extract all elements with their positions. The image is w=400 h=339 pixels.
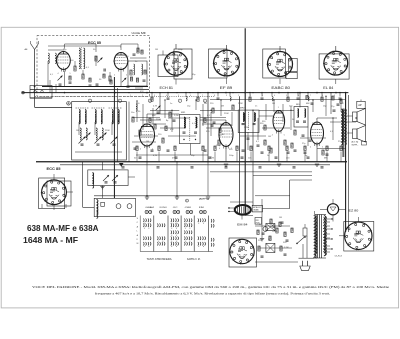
resistor R23 bbox=[291, 143, 293, 148]
resistor RH3 bbox=[197, 97, 199, 101]
pin circle 90 bbox=[88, 99, 91, 102]
wire v266 bbox=[265, 104, 267, 120]
svg-text:5: 5 bbox=[126, 75, 127, 77]
svg-text:EABC 80: EABC 80 bbox=[271, 86, 290, 90]
resistor RM251 bbox=[250, 146, 252, 151]
wire h128-160 bbox=[160, 127, 186, 129]
wire vertical HT double B bbox=[347, 95, 349, 232]
pickup circle bbox=[263, 227, 268, 232]
capacitor C14 bbox=[302, 134, 305, 136]
svg-text:TASTI ATMOSFERA: TASTI ATMOSFERA bbox=[147, 258, 172, 261]
AM box winding boost bbox=[79, 110, 80, 124]
capacitor CD305 bbox=[304, 151, 307, 153]
coil LH2 bbox=[186, 97, 187, 101]
node arrow bbox=[119, 163, 124, 167]
heater capacitor C19 bbox=[139, 156, 142, 158]
FM tuner dashed box (ECC85 section) bbox=[37, 36, 150, 97]
svg-text:8: 8 bbox=[322, 95, 323, 97]
lead stub socket EF89 bbox=[226, 45, 228, 50]
T4 caps bbox=[296, 120, 299, 122]
wire h128-206 bbox=[206, 127, 232, 129]
svg-text:1: 1 bbox=[238, 95, 239, 97]
pentode V3 EF89 bbox=[219, 123, 233, 147]
wire heater bus B bbox=[60, 164, 330, 166]
resistor RF3 bbox=[69, 76, 71, 80]
resistor R31 bbox=[276, 228, 278, 233]
svg-text:1648 MA - MF: 1648 MA - MF bbox=[23, 236, 78, 245]
tube socket ECC85 (base diagram) bbox=[39, 178, 65, 209]
stub wire x262 bbox=[261, 93, 263, 97]
wire vert x289 bbox=[289, 180, 291, 209]
capacitor C9 bbox=[167, 149, 170, 151]
capacitor C27 bbox=[284, 253, 287, 255]
wire vertical x160 bbox=[159, 93, 161, 114]
wire h117.5-132 bbox=[132, 117, 160, 119]
T2 secondary coil bbox=[196, 117, 197, 127]
svg-text:4: 4 bbox=[274, 95, 275, 97]
wire vertical main mid bbox=[244, 28, 246, 215]
IF transformer T3 box bbox=[238, 110, 259, 132]
capacitor C13 bbox=[287, 151, 290, 153]
wire vertical x331 bbox=[330, 93, 332, 114]
AM box lower windings bbox=[80, 128, 81, 140]
small box below bbox=[255, 218, 262, 225]
cap CHT294 bbox=[293, 166, 296, 168]
wire ground bus bbox=[210, 171, 312, 173]
IF transformer T2 box bbox=[179, 115, 200, 144]
capacitor CF2 bbox=[59, 83, 62, 85]
capacitor C4 bbox=[127, 85, 130, 87]
dial drive box 1 bbox=[88, 170, 128, 186]
resistor RX4 bbox=[219, 128, 221, 133]
FM coil core bbox=[80, 47, 82, 70]
FM box extra wiring bbox=[48, 45, 121, 47]
heater capacitor C22 bbox=[241, 156, 244, 158]
tube socket EL84 (base diagram) bbox=[319, 54, 349, 79]
resistor R18 bbox=[232, 105, 234, 110]
stub wire x308 bbox=[307, 93, 309, 97]
resistor R7 bbox=[136, 78, 138, 82]
extra dots pass2 bbox=[136, 100, 137, 101]
resistor R13 bbox=[154, 124, 156, 129]
wire AM box inner bbox=[78, 122, 80, 135]
svg-text:4: 4 bbox=[140, 149, 141, 151]
svg-text:FM: FM bbox=[199, 207, 204, 209]
svg-text:1M: 1M bbox=[221, 106, 224, 108]
wire EM84 right link bbox=[263, 208, 290, 210]
AM coil L5 bbox=[79, 110, 80, 123]
stub wire x218 bbox=[217, 93, 219, 97]
stub wire x230 bbox=[229, 93, 231, 97]
power transformer T6 core bbox=[317, 215, 319, 259]
svg-text:OC: OC bbox=[173, 207, 178, 209]
svg-text:ALT. 3Ω: ALT. 3Ω bbox=[352, 141, 359, 144]
capacitor C11 bbox=[204, 149, 207, 151]
resistor R20 bbox=[264, 140, 266, 145]
node bus junctions bbox=[64, 92, 66, 94]
wire v211 bbox=[210, 112, 212, 136]
resistor R11 bbox=[132, 117, 134, 122]
motor circle 1 bbox=[116, 204, 121, 209]
wire vertical x253 bbox=[252, 110, 254, 206]
wire br2 bbox=[258, 247, 292, 249]
svg-text:4: 4 bbox=[166, 95, 167, 97]
svg-text:SUPPL.: SUPPL. bbox=[352, 145, 359, 147]
svg-text:4: 4 bbox=[310, 147, 311, 149]
terminal A1 bbox=[34, 90, 36, 92]
capacitor CH13 bbox=[339, 97, 342, 99]
wire FM grid bbox=[48, 49, 65, 51]
AM coil L6 bbox=[85, 110, 86, 123]
wire bottom bus bbox=[94, 195, 230, 197]
svg-text:RIV.: RIV. bbox=[296, 104, 300, 106]
svg-text:6: 6 bbox=[190, 95, 191, 97]
resistor R34 bbox=[280, 246, 282, 251]
core line L9 bbox=[109, 107, 122, 109]
stub wire x186 bbox=[185, 93, 187, 97]
svg-text:1M: 1M bbox=[272, 103, 275, 105]
capacitor CD258 bbox=[257, 144, 260, 146]
osc trimmer C bbox=[122, 78, 127, 83]
trimmer T6 bbox=[103, 175, 109, 181]
svg-text:4: 4 bbox=[89, 101, 90, 103]
svg-text:AP: AP bbox=[358, 103, 362, 107]
wire v232 bbox=[231, 112, 233, 126]
tube socket EM84 (base diagram) bbox=[229, 238, 257, 267]
capacitor C5 bbox=[143, 79, 146, 81]
svg-text:Unità MF: Unità MF bbox=[132, 31, 147, 35]
capacitor CH4 bbox=[217, 97, 220, 99]
lead stub socket EABC80 bbox=[279, 46, 281, 52]
wire h136-134 bbox=[134, 135, 158, 137]
wire EM84 drop bbox=[241, 215, 243, 220]
capacitor CX1 bbox=[157, 111, 160, 113]
svg-text:EM 84: EM 84 bbox=[237, 223, 248, 227]
capacitor C2 bbox=[89, 84, 92, 86]
ground at 208 bbox=[206, 196, 210, 198]
wire h136-240 bbox=[240, 135, 266, 137]
AM box arrows bbox=[86, 133, 91, 138]
wire v291 bbox=[290, 106, 292, 130]
wire v137 bbox=[136, 101, 138, 122]
magic eye V6 EM84 bbox=[235, 205, 251, 215]
capacitor CB3 bbox=[286, 239, 289, 241]
T4 coil A bbox=[298, 109, 299, 117]
tuning cap CV2 bbox=[95, 137, 102, 144]
heater capacitor C21 bbox=[209, 156, 212, 158]
wire terminal bottom bbox=[30, 97, 52, 99]
stub wire x340 bbox=[339, 93, 341, 97]
motor winding bbox=[97, 200, 99, 215]
svg-text:2,2M: 2,2M bbox=[244, 127, 249, 129]
wire vertical HT double A bbox=[345, 93, 347, 232]
MF sub-box bbox=[128, 61, 147, 86]
socket EZ80 stubs bbox=[357, 217, 359, 222]
left socket leads bbox=[53, 205, 55, 210]
wire vertical x208 bbox=[207, 93, 209, 162]
capacitor CH1 bbox=[167, 97, 170, 99]
wire AM box bottom bus bbox=[75, 151, 122, 153]
wire V1b cathode drop bbox=[120, 72, 122, 87]
wire V2 cathode bbox=[146, 147, 148, 162]
wire v221 bbox=[220, 100, 222, 116]
svg-text:OM: OM bbox=[185, 207, 191, 209]
wire EZ80 left bbox=[320, 208, 327, 210]
svg-text:8: 8 bbox=[214, 95, 215, 97]
svg-text:220K: 220K bbox=[105, 130, 110, 132]
svg-text:638 MA-MF e 638A: 638 MA-MF e 638A bbox=[27, 224, 99, 233]
resistor RMF bbox=[141, 50, 143, 54]
ground at 147 bbox=[145, 196, 149, 198]
svg-text:4,7K: 4,7K bbox=[210, 157, 215, 159]
mains switch S1 bbox=[297, 237, 305, 244]
capacitor CB1 bbox=[262, 232, 265, 234]
resistor R8 bbox=[130, 77, 132, 81]
fuse F1 bbox=[303, 228, 307, 236]
wire br1 bbox=[255, 225, 290, 227]
loudspeaker 2 bbox=[353, 129, 358, 139]
cap CHT192 bbox=[191, 166, 194, 168]
loudspeaker 1 bbox=[353, 112, 358, 122]
wire v190.5 bbox=[190, 144, 192, 156]
resistor R15 bbox=[169, 112, 171, 117]
wire v341 bbox=[340, 103, 342, 112]
wire matrix to EZ area bbox=[230, 201, 253, 203]
svg-text:1: 1 bbox=[146, 121, 147, 123]
resistor R25 bbox=[306, 96, 308, 100]
wire v196 bbox=[195, 100, 197, 110]
resistor R16 bbox=[212, 108, 214, 113]
wire h122-330 bbox=[330, 121, 356, 123]
wire v326 bbox=[325, 96, 327, 116]
FM coil L2 bbox=[55, 53, 56, 63]
FM input coil L1 bbox=[48, 53, 49, 63]
T2 primary coil bbox=[184, 117, 185, 127]
capacitor C1 bbox=[69, 81, 72, 83]
FM coil tall A bbox=[79, 48, 80, 69]
wire to speakers bbox=[347, 115, 353, 117]
resistor RM237 bbox=[236, 146, 238, 151]
resistor RH12 bbox=[321, 97, 323, 101]
resistor RM159 bbox=[158, 146, 160, 151]
EZ80 internals bbox=[330, 207, 333, 211]
T6 primary winding bbox=[315, 215, 317, 258]
triode V1b ECC85 bbox=[114, 53, 128, 70]
tube socket EF89 (base diagram) bbox=[209, 49, 228, 78]
IF unit coil L4 bbox=[142, 64, 143, 75]
output pentode V5 EL84 bbox=[311, 122, 324, 144]
wire h136-168 bbox=[168, 135, 196, 137]
coil LH11 bbox=[308, 97, 309, 101]
ground at 279 bbox=[277, 163, 281, 165]
svg-text:4,7K: 4,7K bbox=[153, 106, 158, 108]
svg-text:ATTACCO: ATTACCO bbox=[253, 206, 261, 209]
stub wire x198 bbox=[197, 93, 199, 97]
stub wire x288 bbox=[287, 93, 289, 97]
wire mx2 bbox=[168, 117, 190, 119]
svg-text:EZ 80: EZ 80 bbox=[349, 209, 359, 213]
resistor R3 bbox=[95, 56, 97, 61]
resistor R17 bbox=[218, 140, 220, 145]
wire x262 drop bbox=[261, 199, 263, 239]
wire heater bus A bbox=[36, 161, 347, 163]
svg-text:1: 1 bbox=[278, 107, 279, 109]
wire mx1 bbox=[144, 123, 166, 125]
detector transformer T4 box bbox=[294, 107, 308, 128]
resistor RM327 bbox=[326, 146, 328, 151]
wire v333 bbox=[332, 118, 334, 140]
AM coil L9 bbox=[112, 110, 113, 123]
switch contact matrix bbox=[142, 219, 145, 222]
wire MF unit top bbox=[130, 57, 147, 59]
svg-text:1M: 1M bbox=[204, 103, 207, 105]
svg-text:3: 3 bbox=[262, 95, 263, 97]
capacitor C10 bbox=[211, 124, 214, 126]
phono motor box 2 bbox=[94, 198, 135, 216]
svg-text:7: 7 bbox=[310, 95, 311, 97]
svg-text:220K: 220K bbox=[224, 113, 229, 115]
transformer taps boost bbox=[326, 221, 331, 223]
resistor R5 bbox=[130, 70, 132, 75]
svg-text:1: 1 bbox=[316, 119, 317, 121]
resistor R26 bbox=[322, 150, 324, 155]
wire EM84 left bbox=[228, 207, 235, 209]
svg-text:1: 1 bbox=[120, 47, 121, 49]
wire V4 cathode bbox=[278, 132, 280, 162]
node drops bbox=[146, 195, 148, 197]
capacitor CB2 bbox=[273, 225, 276, 227]
T3 primary bbox=[243, 113, 244, 121]
resistor RM341 bbox=[340, 146, 342, 151]
wire T3 out bbox=[259, 115, 273, 117]
wire mains A bbox=[304, 228, 306, 236]
drive coil bbox=[92, 173, 93, 184]
wire h128-262 bbox=[262, 127, 290, 129]
tube socket ECH81 (base diagram) bbox=[158, 55, 178, 77]
T3 caps bbox=[242, 123, 245, 125]
stub wire x152 bbox=[151, 93, 153, 97]
header circled digit bbox=[186, 199, 189, 202]
stub wire x272 bbox=[271, 93, 273, 97]
resistor RX1 bbox=[149, 118, 151, 123]
matrix rails bbox=[140, 251, 213, 253]
pin circle 120 bbox=[118, 99, 121, 102]
capacitor C7 bbox=[134, 147, 137, 149]
stub wire x168 bbox=[167, 93, 169, 97]
speaker terminal box bbox=[362, 141, 367, 145]
ground at 317 bbox=[315, 163, 319, 165]
FM trimmer B bbox=[98, 58, 103, 63]
switch matrix right contacts bbox=[210, 219, 213, 222]
svg-text:EL 84: EL 84 bbox=[323, 86, 333, 90]
tube socket EZ80 (base diagram) bbox=[344, 222, 374, 252]
svg-text:8: 8 bbox=[204, 101, 205, 103]
trimmer T7 bbox=[112, 175, 118, 181]
resistor RF4 bbox=[89, 78, 91, 82]
svg-text:1: 1 bbox=[225, 121, 226, 123]
T2 core bbox=[189, 117, 191, 141]
pentode-triode V2 ECH81 bbox=[140, 124, 155, 146]
capacitor CF3 bbox=[96, 83, 99, 85]
svg-text:KAPPA X. M.: KAPPA X. M. bbox=[187, 258, 201, 261]
svg-text:10n: 10n bbox=[131, 112, 134, 114]
wire v313 bbox=[312, 100, 314, 112]
left terminal circle bbox=[22, 91, 25, 94]
capacitor CD310 bbox=[309, 139, 312, 141]
svg-text:2: 2 bbox=[250, 95, 251, 97]
tube socket EABC80 (base diagram) bbox=[263, 49, 286, 78]
capacitor CX3 bbox=[213, 121, 216, 123]
T2 cap primary bbox=[183, 131, 186, 133]
wire upper bus right bbox=[210, 99, 346, 101]
resistor RM215 bbox=[214, 146, 216, 151]
svg-text:5: 5 bbox=[70, 73, 71, 75]
wire dotted AVC bus bbox=[35, 95, 215, 97]
ground at 226 bbox=[224, 163, 228, 165]
AM coil L7 bbox=[95, 110, 96, 123]
coil LH8 bbox=[272, 97, 273, 101]
capacitor CD243 bbox=[242, 149, 245, 151]
resistor RB1 bbox=[257, 230, 259, 235]
wire v203 bbox=[202, 104, 204, 126]
wire socket stub bbox=[53, 174, 55, 180]
capacitor CD295 bbox=[294, 149, 297, 151]
triple diode triode V4 EABC80 bbox=[273, 111, 285, 132]
cap CHT123 bbox=[122, 166, 125, 168]
wire antenna down-lead bbox=[34, 50, 36, 108]
capacitor C17 bbox=[337, 103, 340, 105]
svg-text:FONO: FONO bbox=[160, 207, 167, 209]
volume pot bbox=[266, 224, 275, 231]
wire v153 bbox=[152, 108, 154, 124]
resistor RM203 bbox=[202, 146, 204, 151]
rectifier V7 EZ80 bbox=[327, 204, 338, 215]
AM coil L8 bbox=[101, 110, 102, 123]
svg-text:1M: 1M bbox=[221, 134, 224, 136]
wire v308 bbox=[307, 127, 309, 146]
svg-text:1n: 1n bbox=[255, 106, 257, 108]
wire bottom link bbox=[245, 215, 253, 217]
motor capacitor bbox=[101, 202, 105, 206]
svg-text:4: 4 bbox=[58, 73, 59, 75]
EM84 connector box bbox=[252, 205, 262, 212]
motor winding boost bbox=[97, 200, 98, 219]
svg-text:5: 5 bbox=[119, 101, 120, 103]
capacitor CX2 bbox=[173, 119, 176, 121]
svg-text:1n: 1n bbox=[259, 224, 261, 226]
svg-text:1M: 1M bbox=[279, 217, 282, 219]
resistor R1 bbox=[74, 66, 76, 71]
ground at 262 bbox=[260, 238, 264, 240]
svg-text:2: 2 bbox=[142, 95, 143, 97]
dial box winding boost bbox=[92, 173, 93, 189]
svg-text:8: 8 bbox=[186, 201, 187, 203]
T2 cap secondary bbox=[194, 131, 197, 133]
resistor R21 bbox=[270, 148, 272, 153]
T2 trimmers bbox=[183, 139, 184, 140]
tone pot bbox=[266, 243, 275, 252]
resistor RX2 bbox=[165, 126, 167, 131]
resistor R32 bbox=[284, 232, 286, 237]
resistor R33 bbox=[258, 246, 260, 251]
capacitor C12 bbox=[261, 151, 264, 153]
wire v165 bbox=[164, 100, 166, 118]
wire fm r1 bbox=[49, 80, 51, 93]
wire x208 drop bbox=[207, 162, 209, 196]
wire V3 cathode bbox=[225, 147, 227, 162]
resistor RF1 bbox=[144, 70, 146, 74]
FM coil tall B bbox=[84, 48, 85, 69]
